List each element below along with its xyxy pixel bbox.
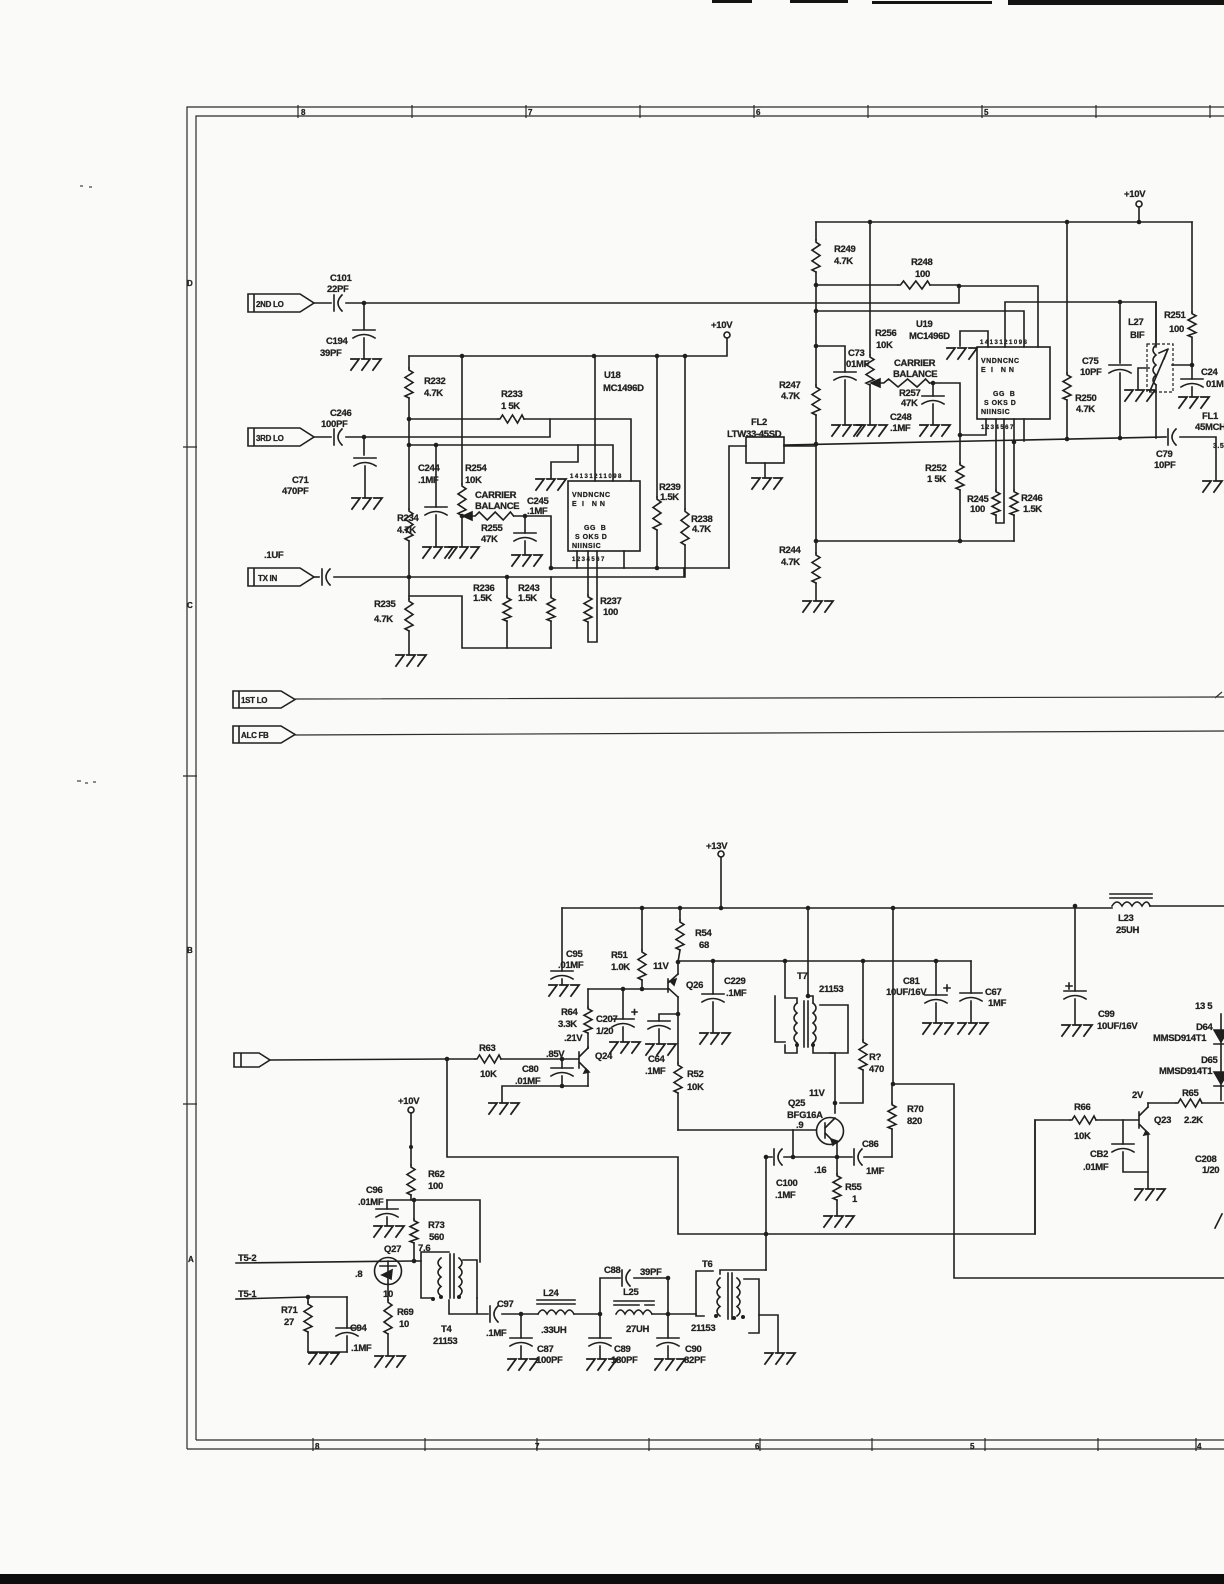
svg-text:R256: R256 bbox=[875, 328, 897, 339]
svg-text:1.5K: 1.5K bbox=[473, 593, 492, 604]
svg-text:1 5K: 1 5K bbox=[927, 474, 946, 485]
node x816 C73 bbox=[814, 344, 819, 349]
node T7 top left bbox=[806, 994, 811, 999]
resistor R246 bbox=[1010, 490, 1018, 515]
wire R63 to Q24 base bbox=[501, 1058, 578, 1060]
capacitor C95 bbox=[551, 971, 573, 979]
capacitor C86 bbox=[854, 1149, 862, 1165]
node R257 C248 bbox=[931, 381, 936, 386]
wire FL2 left leg bbox=[729, 446, 746, 568]
node R254 wiper bbox=[460, 514, 465, 519]
capacitor C75 stem bbox=[1119, 302, 1121, 439]
resistor R252 bbox=[956, 463, 964, 490]
wire ALC FB line bbox=[295, 731, 1224, 735]
wire R257 to C248 bbox=[930, 383, 960, 435]
ground C248 bbox=[920, 425, 950, 436]
capacitor C82 bbox=[1112, 1144, 1134, 1152]
ground C71 bbox=[352, 498, 382, 509]
svg-text:C73: C73 bbox=[848, 348, 865, 359]
svg-text:C75: C75 bbox=[1082, 356, 1100, 367]
resistor R236 bbox=[503, 596, 511, 621]
svg-text:.16: .16 bbox=[814, 1165, 826, 1176]
svg-text:560: 560 bbox=[429, 1232, 444, 1243]
svg-text:C100: C100 bbox=[776, 1178, 798, 1189]
svg-text:L27: L27 bbox=[1128, 317, 1143, 328]
resistor R256 bbox=[866, 355, 874, 385]
svg-text:T7: T7 bbox=[797, 971, 808, 982]
svg-text:10K: 10K bbox=[876, 340, 893, 351]
svg-text:R71: R71 bbox=[281, 1305, 299, 1316]
wire Q23 emitter column bbox=[1147, 1133, 1149, 1188]
capacitor C89 bbox=[589, 1338, 611, 1346]
svg-text:R65: R65 bbox=[1182, 1088, 1200, 1099]
capacitor C245 stem bbox=[524, 516, 526, 554]
node rail x893 bbox=[891, 906, 896, 911]
wire R238 column bbox=[684, 356, 686, 577]
wire 1ST LO line bbox=[295, 692, 1224, 699]
wire feedback to bottom right bbox=[893, 1084, 1224, 1278]
svg-text:68: 68 bbox=[699, 940, 709, 951]
ground C89 bbox=[587, 1359, 617, 1370]
svg-text:.01MF: .01MF bbox=[515, 1076, 541, 1087]
svg-text:13 5: 13 5 bbox=[1195, 1001, 1213, 1012]
node rail x656 bbox=[655, 354, 660, 359]
transistor Q25 collector arrow bbox=[831, 1139, 837, 1145]
svg-text:BIF: BIF bbox=[1130, 330, 1145, 341]
svg-text:L24: L24 bbox=[543, 1288, 559, 1299]
capacitor C99 polarity bbox=[1066, 983, 1072, 989]
capacitor C87 bbox=[510, 1338, 532, 1346]
wire U19 pin12 feed y302 bbox=[1005, 302, 1156, 347]
svg-text:R249: R249 bbox=[834, 244, 856, 255]
wire C97 to L24 bbox=[502, 1313, 538, 1315]
power +10V terminal top right bbox=[1136, 201, 1142, 207]
svg-text:3RD LO: 3RD LO bbox=[256, 434, 284, 443]
wire C94 R71 join bbox=[308, 1351, 347, 1353]
transformer T4 right box bbox=[463, 1260, 477, 1298]
svg-text:25UH: 25UH bbox=[1116, 925, 1140, 936]
capacitor C90 bbox=[657, 1338, 679, 1346]
wire Q24 emitter down bbox=[587, 1071, 589, 1086]
node rail x870 bbox=[868, 220, 873, 225]
scan artifact dashes top edge bbox=[712, 0, 1224, 5]
node +10V stem blob bbox=[409, 1145, 413, 1149]
transformer T7 primary winding bbox=[794, 1003, 797, 1043]
wire R64 column bbox=[587, 989, 589, 1048]
resistor R53 bbox=[859, 1040, 867, 1070]
resistor R238 bbox=[681, 509, 689, 545]
svg-text:CARRIER: CARRIER bbox=[475, 490, 517, 501]
svg-text:4.7K: 4.7K bbox=[397, 525, 416, 536]
svg-text:L25: L25 bbox=[623, 1287, 639, 1298]
wire R236 column bbox=[506, 577, 508, 648]
border outer frame bbox=[187, 107, 1224, 1449]
ground R254 bbox=[449, 547, 479, 558]
capacitor C229 stem bbox=[712, 961, 714, 1032]
wire C80 bottom line bbox=[502, 1086, 588, 1102]
wire ground jog at U18 pin12 bbox=[551, 445, 578, 478]
svg-text:47K: 47K bbox=[901, 398, 918, 409]
capacitor C94 stem bbox=[346, 1297, 348, 1352]
svg-text:R244: R244 bbox=[779, 545, 802, 556]
svg-text:.1MF: .1MF bbox=[726, 988, 747, 999]
input arrow 1ST LO bbox=[233, 691, 295, 708]
transformer T6 right box bbox=[744, 1279, 759, 1333]
wire T6 secondary out to ground bbox=[759, 1315, 778, 1352]
svg-text:10PF: 10PF bbox=[1154, 460, 1176, 471]
svg-text:1MF: 1MF bbox=[866, 1166, 885, 1177]
capacitor C89 stem bbox=[599, 1314, 601, 1358]
wire bias line y541 bbox=[816, 540, 1014, 542]
inductor L27 shield dashed box bbox=[1147, 344, 1173, 392]
node x816 y541 bbox=[814, 539, 819, 544]
wire R233 line bbox=[409, 419, 631, 481]
svg-text:10K: 10K bbox=[480, 1069, 497, 1080]
ground R244 bbox=[803, 601, 833, 612]
wire T4 secondary out bbox=[449, 1298, 488, 1314]
svg-text:7.6: 7.6 bbox=[418, 1243, 430, 1254]
transformer T4 core bbox=[450, 1254, 454, 1298]
wire base line y989 bbox=[588, 988, 668, 990]
svg-text:1 5K: 1 5K bbox=[501, 401, 520, 412]
node R251 L27 bbox=[1190, 363, 1195, 368]
wire U18 pin6 stub bbox=[623, 551, 625, 568]
capacitor C80 bbox=[551, 1068, 573, 1076]
ground C67 bbox=[958, 1023, 988, 1034]
wire +13V rail bbox=[562, 907, 1112, 909]
node rail R51 bbox=[640, 906, 645, 911]
wire TX IN to cap bbox=[314, 576, 319, 578]
wire R73 column bbox=[413, 1200, 415, 1261]
wire L23 to right edge bbox=[1150, 905, 1224, 907]
resistor R232 bbox=[405, 368, 413, 398]
wire C88 to L25 out bbox=[634, 1278, 668, 1314]
svg-text:21153: 21153 bbox=[691, 1323, 715, 1334]
input arrow T lower bbox=[234, 1053, 270, 1067]
transformer T7 left box bbox=[775, 996, 785, 1042]
wire base tap to C100 line bbox=[792, 1130, 794, 1157]
svg-text:R252: R252 bbox=[925, 463, 947, 474]
wire output line y961 bbox=[678, 960, 971, 962]
wire L25 to T6 bbox=[652, 1313, 696, 1315]
node rail x594 bbox=[592, 354, 597, 359]
svg-text:.1MF: .1MF bbox=[775, 1190, 796, 1201]
wire R52 column bbox=[677, 1014, 679, 1130]
svg-text:L23: L23 bbox=[1118, 913, 1133, 924]
ground U19 pin14 bbox=[947, 348, 977, 359]
svg-text:BFG16A: BFG16A bbox=[787, 1110, 823, 1121]
inductor L25 winding bbox=[616, 1310, 652, 1314]
diode D64 bbox=[1214, 1030, 1224, 1044]
svg-text:+10V: +10V bbox=[398, 1096, 420, 1107]
svg-text:D64: D64 bbox=[1196, 1022, 1214, 1033]
capacitor C244 stem bbox=[435, 445, 437, 546]
svg-text:T6: T6 bbox=[702, 1259, 713, 1270]
ground R71 C94 bbox=[309, 1353, 339, 1364]
node R239 y568 bbox=[655, 566, 660, 571]
svg-text:.21V: .21V bbox=[564, 1033, 583, 1044]
svg-text:C86: C86 bbox=[862, 1139, 879, 1150]
wire C194 stem bbox=[363, 303, 365, 358]
svg-text:100: 100 bbox=[970, 504, 985, 515]
svg-text:VNDNCNC: VNDNCNC bbox=[981, 358, 1020, 365]
node R62 collector bbox=[412, 1198, 417, 1203]
wire signal drop to bottom loop bbox=[447, 1059, 1035, 1234]
wire L27 tap to ground bbox=[1138, 368, 1149, 389]
wire C88 branch up bbox=[600, 1278, 620, 1314]
wire +10V stem top right bbox=[1138, 207, 1140, 222]
svg-text:10K: 10K bbox=[1074, 1131, 1091, 1142]
node TX IN R236 bbox=[505, 575, 510, 580]
svg-text:R62: R62 bbox=[428, 1169, 445, 1180]
resistor R64 bbox=[584, 1007, 592, 1033]
ground C247 bbox=[1179, 397, 1209, 408]
ground C99 bbox=[1062, 1025, 1092, 1036]
ground Q23 bbox=[1135, 1189, 1165, 1200]
capacitor C81 stem bbox=[935, 961, 937, 1022]
wire R65 line bbox=[1148, 1102, 1224, 1104]
transformer T4 secondary winding bbox=[459, 1258, 462, 1296]
wire R252 column bbox=[959, 435, 961, 541]
wire T5-2 line bbox=[236, 1261, 421, 1263]
capacitor C64 bbox=[648, 1021, 670, 1029]
resistor R251 bbox=[1188, 312, 1196, 337]
capacitor C194 bbox=[353, 330, 375, 338]
node rail C99 bbox=[1073, 904, 1078, 909]
wire U19 pin5 stub bbox=[1023, 419, 1025, 441]
svg-text:R51: R51 bbox=[611, 950, 629, 961]
node rail R54 bbox=[678, 906, 683, 911]
capacitor C207 polarity bbox=[632, 1010, 637, 1015]
capacitor C67 stem bbox=[970, 961, 972, 1022]
resistor R71 bbox=[304, 1302, 312, 1332]
svg-text:4.7K: 4.7K bbox=[692, 524, 711, 535]
ground C96 bbox=[374, 1226, 404, 1237]
node R252 bottom bbox=[958, 539, 963, 544]
svg-text:10UF/16V: 10UF/16V bbox=[1097, 1021, 1138, 1032]
svg-text:T5-1: T5-1 bbox=[238, 1289, 257, 1300]
wire T7 secondary out bbox=[813, 1043, 835, 1103]
ground C87 bbox=[508, 1359, 538, 1370]
node y961 C229 bbox=[711, 959, 716, 964]
svg-text:R255: R255 bbox=[481, 523, 504, 534]
ground FL2 bbox=[752, 478, 782, 489]
wire x893 from rail bbox=[892, 908, 894, 1084]
node Q25 emitter line bbox=[835, 1155, 840, 1160]
svg-text:R52: R52 bbox=[687, 1069, 704, 1080]
node y445 left bbox=[407, 443, 412, 448]
wire R66 to Q23 base bbox=[1096, 1119, 1138, 1121]
svg-text:C81: C81 bbox=[903, 976, 921, 987]
input arrow 2ND LO bbox=[248, 294, 314, 312]
svg-text:470: 470 bbox=[869, 1064, 884, 1075]
inductor L25 core bars bbox=[614, 1301, 654, 1305]
wire 3RD LO to C246 bbox=[314, 436, 331, 438]
resistor R55 bbox=[833, 1174, 841, 1200]
svg-text:.1MF: .1MF bbox=[527, 506, 548, 517]
svg-text:1/20: 1/20 bbox=[596, 1026, 613, 1037]
resistor R52 bbox=[674, 1063, 682, 1093]
filter FL2 box bbox=[746, 437, 784, 463]
svg-text:B: B bbox=[187, 946, 193, 955]
node C244 tap bbox=[434, 443, 439, 448]
wire x462 column bbox=[461, 356, 463, 546]
svg-text:R63: R63 bbox=[479, 1043, 496, 1054]
svg-text:.1UF: .1UF bbox=[264, 550, 284, 561]
capacitor C75 bbox=[1109, 365, 1131, 373]
resistor R63 bbox=[475, 1055, 501, 1063]
wire C64 tap bbox=[659, 1014, 678, 1043]
ground FL1 bbox=[1203, 481, 1224, 492]
svg-text:C87: C87 bbox=[537, 1344, 554, 1355]
wire x409 column bbox=[408, 356, 410, 654]
svg-text:C79: C79 bbox=[1156, 449, 1173, 460]
svg-text:C24: C24 bbox=[1201, 367, 1219, 378]
capacitor C207 stem bbox=[622, 989, 624, 1041]
svg-text:R246: R246 bbox=[1021, 493, 1043, 504]
node T6 winding bottoms bbox=[714, 1314, 718, 1318]
svg-text:E I N N: E I N N bbox=[572, 501, 605, 508]
node C100 left bbox=[764, 1155, 769, 1160]
svg-text:R250: R250 bbox=[1075, 393, 1097, 404]
inductor L27 tuning arrow bbox=[1150, 349, 1168, 391]
inductor L23 core bars bbox=[1110, 894, 1152, 898]
transformer T4 primary winding bbox=[438, 1258, 441, 1296]
svg-text:100PF: 100PF bbox=[536, 1355, 563, 1366]
node R70 top bbox=[891, 1082, 896, 1087]
capacitor C99 stem bbox=[1074, 906, 1076, 1024]
resistor R66 bbox=[1070, 1116, 1096, 1124]
capacitor C88 bbox=[622, 1270, 630, 1286]
resistor R237 bbox=[584, 595, 592, 622]
wire R66 riser bbox=[1035, 1120, 1070, 1234]
transformer T6 core bbox=[728, 1273, 732, 1319]
svg-text:R66: R66 bbox=[1074, 1102, 1091, 1113]
svg-text:.01MF: .01MF bbox=[558, 960, 584, 971]
power +13V terminal bbox=[718, 851, 724, 857]
wire y568 line bbox=[551, 567, 729, 569]
wire R245 column bbox=[996, 419, 1004, 523]
wire U19 pin14 ground bracket bbox=[960, 331, 988, 347]
transformer T7 core bbox=[804, 1001, 808, 1047]
resistor R257 bbox=[880, 379, 929, 387]
capacitor C87 stem bbox=[520, 1314, 522, 1358]
capacitor C95 stem bbox=[561, 908, 563, 984]
node rail x462 bbox=[460, 354, 465, 359]
svg-text:R64: R64 bbox=[561, 1007, 579, 1018]
wire R246 column bbox=[1013, 419, 1015, 541]
resistor R247 bbox=[812, 385, 820, 415]
svg-text:.01MF: .01MF bbox=[1083, 1162, 1109, 1173]
svg-text:C67: C67 bbox=[985, 987, 1002, 998]
resistor R233 bbox=[498, 415, 524, 423]
wire C79 to FL1 bbox=[1180, 437, 1216, 480]
svg-text:1/20: 1/20 bbox=[1202, 1165, 1219, 1176]
wire L27 to R251 node bbox=[1172, 364, 1192, 366]
capacitor C247 bbox=[1181, 379, 1203, 387]
resistor R73 bbox=[410, 1219, 418, 1243]
capacitor C99 bbox=[1064, 991, 1086, 999]
node L25 C90 bbox=[666, 1312, 671, 1317]
svg-text:10K: 10K bbox=[687, 1082, 704, 1093]
resistor R254 bbox=[458, 484, 466, 516]
svg-text:R254: R254 bbox=[465, 463, 488, 474]
svg-text:1ST LO: 1ST LO bbox=[241, 696, 267, 705]
transformer T7 secondary feed bbox=[808, 908, 813, 1003]
svg-text:180PF: 180PF bbox=[611, 1355, 638, 1366]
ground C80 bbox=[489, 1103, 519, 1114]
svg-text:C64: C64 bbox=[648, 1054, 666, 1065]
node C75 bottom bbox=[1118, 436, 1123, 441]
node T7 out Q25 bbox=[833, 1101, 838, 1106]
node y961 C81 bbox=[934, 959, 939, 964]
wire 2ND LO to C101 bbox=[314, 302, 331, 304]
ground C194 bbox=[351, 359, 381, 370]
svg-text:NIINSIC: NIINSIC bbox=[981, 409, 1010, 416]
wire C101 to junction bbox=[346, 302, 364, 304]
transistor Q27 emitter arrow bbox=[382, 1270, 392, 1279]
svg-text:R251: R251 bbox=[1164, 310, 1187, 321]
svg-text:100: 100 bbox=[603, 607, 618, 618]
svg-text:820: 820 bbox=[907, 1116, 922, 1127]
svg-text:+10V: +10V bbox=[1124, 189, 1146, 200]
svg-text:1234567: 1234567 bbox=[572, 557, 606, 563]
node Q26 emitter R54 bbox=[676, 960, 681, 965]
wire L24 to junction bbox=[574, 1313, 600, 1315]
wire R71 column bbox=[307, 1297, 309, 1352]
node R246 top bbox=[1012, 440, 1017, 445]
svg-text:.33UH: .33UH bbox=[541, 1325, 567, 1336]
transistor Q23 bbox=[1139, 1107, 1148, 1133]
svg-text:11V: 11V bbox=[653, 961, 669, 972]
svg-text:R55: R55 bbox=[845, 1182, 863, 1193]
transistor Q25 body circle bbox=[817, 1118, 844, 1145]
ground C90 bbox=[655, 1359, 685, 1370]
wire 3RD LO line bbox=[364, 419, 550, 437]
capacitor C94 bbox=[336, 1328, 358, 1336]
node C80 bottom bbox=[560, 1084, 565, 1089]
wire R251 column bbox=[1191, 222, 1193, 379]
transistor Q25 bbox=[825, 1118, 835, 1143]
wire T5-1 line bbox=[236, 1297, 347, 1299]
svg-text:10: 10 bbox=[399, 1319, 409, 1330]
node R250 bottom bbox=[1065, 437, 1070, 442]
capacitor C97 bbox=[490, 1306, 498, 1322]
node base tap C100 bbox=[791, 1155, 796, 1160]
border zone ticks top bbox=[298, 105, 1210, 118]
potentiometer R255 wiper arrow bbox=[463, 512, 472, 520]
capacitor C245 bbox=[514, 533, 536, 541]
transformer T6 left box bbox=[696, 1271, 713, 1316]
border zone ticks left bbox=[183, 447, 197, 1104]
svg-text:S OKS D: S OKS D bbox=[984, 400, 1016, 407]
svg-text:R235: R235 bbox=[374, 599, 397, 610]
node C80 top bbox=[560, 1057, 565, 1062]
transistor Q24 bbox=[579, 1048, 588, 1071]
svg-text:C207: C207 bbox=[596, 1014, 618, 1025]
svg-text:1.5K: 1.5K bbox=[518, 593, 537, 604]
capacitor C81 polarity bbox=[944, 985, 950, 991]
node R51 base bbox=[640, 987, 645, 992]
transistor Q24 emitter arrow bbox=[584, 1069, 589, 1073]
node rail +10V bbox=[1137, 220, 1142, 225]
wire Q25 emitter down bbox=[836, 1143, 838, 1157]
svg-text:MMSD914T1: MMSD914T1 bbox=[1159, 1066, 1213, 1077]
wire R69 to ground bbox=[387, 1334, 389, 1355]
inductor L24 core bars bbox=[537, 1300, 575, 1304]
capacitor C207 bbox=[612, 1019, 634, 1027]
svg-text:MC1496D: MC1496D bbox=[909, 331, 950, 342]
